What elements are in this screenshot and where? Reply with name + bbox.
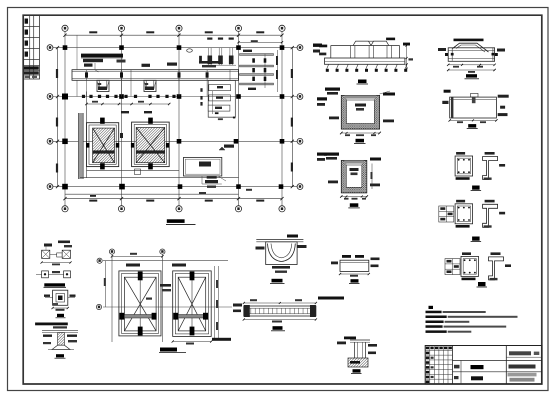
pit plan leader texts [126,264,140,267]
pit shaft 1 mid band [124,315,156,319]
plan dim marks between rows [199,192,206,194]
columns grid row D [62,184,68,190]
drawing-list table [23,15,39,79]
pit plan vertical grids [111,255,113,343]
detail 5-5 label [351,279,359,282]
elevator shaft 1 machine beam stubs [100,118,105,124]
detail 5-5 body [340,260,369,271]
pit shaft 2 walls [173,271,212,337]
hoist pocket 2 [144,80,156,91]
L-profile plate [489,257,504,280]
detail 6-6 top flange [350,339,370,341]
beam detail title text [318,297,344,300]
pit plan left dim [105,261,107,307]
detail 6-6 stem [354,342,356,358]
beam detail body [244,306,316,316]
axis bubbles bottom row [62,206,68,212]
tank right support marks [207,176,217,178]
detail 6-6 label [353,369,361,372]
pit shaft 1 cross bracing [124,277,156,331]
section 2-2 label [356,139,365,143]
left dimension line [57,48,59,187]
column section with rebar dots [461,256,479,276]
pit plan left bubbles [97,258,102,263]
embed plate label [468,124,476,128]
pit plan top bubbles [109,249,114,254]
beam list bottom dim [215,112,219,114]
elevator shaft 1 divider beam [93,150,115,153]
elevator shaft 1 walls [87,123,119,167]
pocket 1 inner marks [98,87,107,91]
pit shaft 2 cross bracing [178,277,206,331]
notes lines [426,311,442,314]
hook section box [266,242,297,265]
revision table left column marks [426,352,429,355]
beam detail label [273,326,283,330]
axis bubbles top row [62,25,68,31]
section 1-1 label [358,80,367,84]
section 1-1 base hatch [327,64,329,69]
pile elevation detail [42,329,78,331]
hook detail label [466,74,477,77]
beam band to row B connectors [76,80,78,96]
section 3-3 cavity [346,165,362,187]
staircase centre posts [264,54,266,88]
hook arc [453,43,489,52]
detail 6-6 base block [348,358,368,367]
wall line above band [76,35,78,69]
hook section label [272,279,283,283]
notes heading [429,306,434,309]
shaft top dimension line [87,103,170,105]
cluster dim stack [445,259,460,275]
section 1-1 internal webs [349,46,351,59]
pile caption underlined [44,283,65,286]
top dimension line [65,34,282,36]
pile cap leader marks [44,244,52,247]
section 2-2 cavity [347,100,375,124]
staircase top leader [243,50,252,52]
section 1-1 top bumps [353,41,371,45]
stack room outline [208,80,235,117]
embed plate leader marks [444,90,451,93]
column section with rebar dots [455,204,473,224]
shaft inner leader marks [120,133,123,138]
pile cap dim line [42,262,71,264]
row B stub marks [82,95,85,98]
pocket leader texts [84,64,93,67]
pile elevation leader marks [43,335,52,337]
hook section top slab [256,239,303,241]
section cut symbols right edge [313,44,322,47]
table row glyphs [25,19,28,24]
section 3-3 bottom dim [341,196,367,198]
pit plan caption [160,348,177,352]
elevator shaft 2 walls [132,122,170,167]
cluster label [472,237,480,241]
detail 6-6 leader marks [344,337,356,340]
pit shaft 2 stubs [190,272,195,281]
columns grid row C [62,139,68,145]
column section with rebar dots [455,156,473,176]
elevator shaft 2 machine beam stubs [148,118,153,124]
cluster dim stack [439,206,454,222]
detail 5-5 bottom dim [340,273,369,275]
hook section leader marks [256,247,265,250]
section 3-3 right dim [371,164,373,190]
bottom dimension lines [65,193,239,195]
hook bottom dims [448,64,494,66]
cluster label [478,282,486,286]
left shear wall grey fill [78,113,83,179]
floor hatch square [135,169,141,175]
pit shaft 1 stubs [138,272,143,281]
hook beam elevation [448,48,494,62]
pit plan top dim [112,255,162,257]
stair bottom marks [248,88,256,90]
pit shaft 2 mid band [178,315,206,319]
beam name ellipse [187,49,193,52]
section 3-3 leader marks [324,153,339,156]
elevator shaft 2 hatched pit [136,128,165,163]
pocket 2 inner marks [145,87,154,91]
water tank level mark [224,145,234,148]
water tank rectangle [184,157,222,176]
elevator shaft 2 diagonals [136,128,165,163]
hook side cut marks [438,48,446,51]
section 1-1 leader marks [386,38,395,41]
section 3-3 label [350,203,359,207]
beam band stub marks [85,72,88,77]
section 3-3 walls [341,160,346,193]
beam list left ticks [200,88,202,92]
title block stamp grey text [508,373,537,377]
pile cap plan squares [42,250,50,258]
pit shaft 1 walls [119,271,161,336]
buffer base dims [53,307,68,309]
right dimension line [291,48,293,187]
beam detail end blocks [244,305,250,317]
staircase beams [240,54,274,56]
pile section pair [42,271,49,278]
machine room beam band [72,70,239,81]
section 2-2 leader marks [325,88,340,91]
stair top dim line [239,41,283,43]
section 2-2 bottom dim [341,132,379,134]
main plan vertical grid lines [64,32,66,206]
revision table header marks [426,347,429,350]
pit plan bottom dims [173,341,212,343]
section 1-1 body [331,45,400,47]
beam list cell 3 [208,105,230,111]
title block outer [425,346,542,385]
main plan caption [167,219,185,223]
axis bubbles right column [297,45,303,51]
L-profile plate [483,157,498,180]
revision table [452,346,454,385]
note line small [35,323,68,326]
hook top text [454,39,484,42]
title block institute name [509,351,531,355]
staircase side dimension [277,50,279,92]
cluster label [472,186,480,190]
title block row3 texts [454,376,459,379]
beam list cell 1 [209,85,231,91]
section 1-1 slab [325,58,405,64]
buffer base label [57,314,64,317]
embed plate bottom dims [450,119,497,121]
pit plan horizontal grids [103,260,228,262]
elevator shaft 2 divider beam [136,150,165,153]
columns grid row A [63,45,68,50]
beam label leader text [81,54,123,58]
pile elevation label [56,354,64,357]
beam detail top dim [244,302,316,304]
axis bubbles left column [47,45,53,51]
hoist beam droppers [208,48,210,65]
water tank bottom bracket [201,176,203,184]
hoist pocket 1 [97,80,109,91]
room lower outline [87,169,180,171]
columns grid row B [62,94,68,100]
elevator shaft 1 hatched pit [93,128,115,163]
L-profile plate [483,204,498,227]
main plan horizontal grid lines [53,47,298,49]
section 2-2 walls [341,95,346,129]
elevator shaft 1 diagonals [93,128,115,163]
pit plan right dims [214,266,216,340]
embed plate body [450,97,497,118]
title block row2 texts [454,365,460,369]
beam list cell 2 [209,95,231,101]
beam detail left leaders [233,304,242,307]
section 2-2 top lintel [345,95,377,98]
section 3-3 top lintel [344,160,364,163]
detail 5-5 leader marks [342,255,351,258]
hook section hanging arc [268,244,296,262]
buffer base detail [53,290,68,305]
beam detail bottom dim [244,319,316,321]
title block dividers [460,361,462,385]
